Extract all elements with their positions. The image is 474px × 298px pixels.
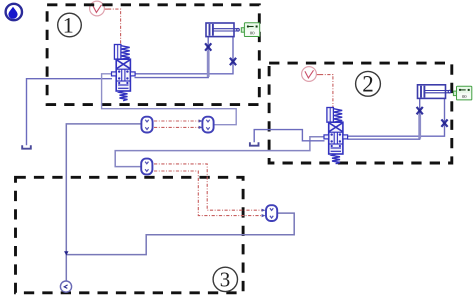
wire: thick segment below orifice X3: [418, 114, 421, 138]
flow source FS0 (circle at bottom): [60, 281, 71, 292]
signal: FS3 upper output to FS4 upper input (red dash-dot): [154, 164, 264, 210]
enclosure box 1 (dashed): [47, 5, 259, 105]
wire: flow sensor FS1 left port to junction and supply line: [66, 124, 141, 281]
arrowhead into FS2 lower: [199, 126, 203, 129]
wire: junction to flow sensor FS4 right port: [66, 213, 294, 255]
signal: FS1 upper output to FS2 (red dash-dot): [154, 120, 201, 122]
orifice X1: [205, 43, 211, 50]
orifice X2: [230, 58, 236, 65]
label 3 (circled number): [213, 267, 237, 291]
hydraulic cylinder C1: [206, 23, 239, 37]
flow sensor FS1: [141, 117, 152, 133]
orifice X4: [441, 119, 447, 126]
svg-text:1: 1: [63, 13, 74, 38]
pressure compensated valve V1: [112, 45, 136, 101]
label 1 (circled number): [58, 13, 82, 38]
pressure gauge PT1: [90, 1, 108, 16]
wire: valve V1 right upper port to orifice X2 and cylinder C1 right port: [135, 37, 234, 74]
flow direction arrow at junction: [64, 251, 68, 255]
tank T1: [22, 145, 31, 148]
arrowhead into FS2 upper: [199, 119, 203, 122]
wire: valve V1 right lower port to orifice X1 and cylinder C1 left port: [135, 37, 209, 78]
wire: valve V1 upper-left port loop to flow sensor FS2 right port: [102, 74, 237, 125]
label 2 (circled number): [356, 71, 381, 96]
signal: gauge PT1 to valve V1 pilot (red dash-dot): [108, 9, 121, 47]
wire: thick segment below orifice X1: [207, 51, 210, 77]
wire: valve V2 right upper port to orifice X4 and cylinder C2 right port: [347, 98, 444, 136]
flow sensor FS2: [202, 117, 213, 133]
tank T2: [250, 142, 259, 145]
flow sensor FS3: [141, 159, 152, 175]
orifice X3: [417, 107, 423, 114]
svg-text:3: 3: [220, 268, 231, 292]
pressure gauge PT2: [302, 67, 320, 82]
arrowhead into FS4 lower: [262, 214, 266, 217]
hydraulic cylinder C2: [418, 85, 451, 99]
signal: FS3 lower output to FS4 lower input (red dash-dot): [154, 171, 264, 216]
flow sensor FS4: [266, 205, 277, 221]
mass load M2 (green): [453, 86, 471, 100]
wire: valve V2 lower-left port to tank T2: [254, 130, 324, 143]
mass load M1 (green): [241, 23, 259, 37]
fluid properties icon (drop): [6, 4, 22, 20]
wire: valve V1 lower-left port to tank T1: [27, 79, 113, 146]
wire: valve V2 upper-left port long line to flow sensor FS3 left port: [115, 137, 324, 167]
arrowhead into FS4 upper: [262, 209, 266, 212]
signal: FS1 lower output to FS2 (red dash-dot): [154, 126, 201, 128]
signal: gauge PT2 to valve V2 pilot (red dash-dot): [320, 75, 333, 111]
enclosure box 2 (dashed): [269, 63, 452, 163]
svg-text:2: 2: [362, 72, 374, 97]
wire: valve V2 right lower port to orifice X3 and cylinder C2 left port: [347, 98, 419, 139]
enclosure box 3 (dashed): [16, 177, 244, 292]
pressure compensated valve V2: [324, 108, 348, 164]
